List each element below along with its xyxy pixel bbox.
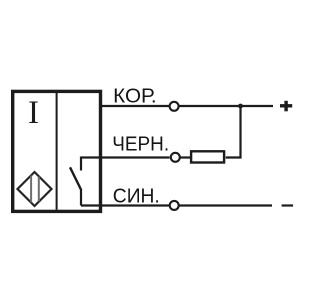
- terminal circle СИН: [170, 201, 179, 210]
- terminal circle КОР: [170, 102, 179, 111]
- wire ЧЕРН terminal to resistor: [180, 156, 190, 158]
- svg-text:СИН.: СИН.: [113, 184, 160, 207]
- wire switch to СИН line: [80, 189, 82, 206]
- terminal circle ЧЕРН: [171, 153, 180, 162]
- minus terminal: [282, 204, 294, 206]
- svg-text:КОР.: КОР.: [113, 85, 157, 108]
- wire КОР (brown) sensor to terminal: [101, 105, 170, 107]
- sensor body divider: [56, 93, 58, 210]
- sensor body box: [13, 91, 101, 211]
- resistor (load): [191, 151, 224, 162]
- wire switch stub down from ЧЕРН: [80, 157, 82, 171]
- wire СИН (blue) sensor to terminal: [81, 204, 170, 206]
- proximity sensor symbol (diamond with bars): [18, 172, 52, 206]
- wire ЧЕРН inside sensor (horizontal to stub): [81, 156, 170, 158]
- wire СИН terminal to minus: [179, 204, 272, 206]
- plus terminal: [280, 101, 292, 112]
- wire КОР terminal to plus: [179, 105, 273, 107]
- junction node: [238, 104, 243, 109]
- svg-text:ЧЕРН.: ЧЕРН.: [112, 132, 169, 155]
- wire resistor to junction (up to plus wire): [226, 106, 241, 158]
- svg-text:I: I: [28, 95, 39, 131]
- switch contact (normally open blade): [70, 167, 81, 190]
